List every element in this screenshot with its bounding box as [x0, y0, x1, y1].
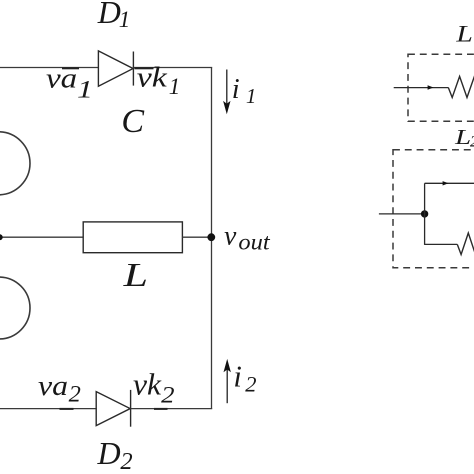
dashed box L2	[393, 150, 474, 268]
wire middle from left node to resistor L	[0, 236, 84, 238]
resistor R2 (box L2, clipped)	[457, 233, 474, 255]
node left junction (clipped)	[0, 234, 3, 240]
current arrow i2	[224, 359, 231, 403]
voltage source V2 (left, clipped)	[0, 277, 30, 339]
svg-text:C: C	[121, 103, 144, 140]
label va1	[46, 63, 93, 103]
svg-text:1: 1	[77, 76, 93, 103]
diode D2	[96, 390, 130, 427]
wire lead into box L2	[379, 213, 425, 215]
diode D1	[98, 51, 133, 86]
svg-text:L: L	[455, 22, 473, 47]
wire top branch box L2	[425, 182, 474, 184]
dashed box L1	[408, 54, 474, 121]
svg-text:L: L	[454, 125, 471, 149]
current mark on top branch	[443, 181, 449, 185]
svg-text:va: va	[38, 371, 68, 402]
svg-text:out: out	[238, 230, 270, 255]
svg-text:2: 2	[161, 383, 174, 408]
probe dash va2	[60, 408, 74, 410]
current mark on L1 wire	[428, 85, 434, 89]
wire D1 cathode to top-right corner	[133, 67, 212, 69]
svg-text:va: va	[46, 63, 77, 94]
node vout	[207, 233, 215, 241]
node junction in box L2	[421, 210, 428, 217]
svg-text:D: D	[97, 0, 121, 30]
label D2	[97, 435, 133, 474]
label i2	[233, 360, 256, 397]
wire bottom branch box L2	[425, 243, 458, 245]
svg-text:vk: vk	[133, 368, 161, 402]
svg-text:D: D	[97, 435, 121, 471]
label vk2	[133, 368, 175, 408]
svg-text:2: 2	[470, 133, 474, 150]
wire riser in box L2	[424, 183, 426, 245]
svg-text:i: i	[232, 74, 240, 105]
label vk1	[137, 62, 180, 99]
svg-text:L: L	[122, 257, 148, 294]
svg-text:2: 2	[120, 448, 132, 474]
svg-text:1: 1	[169, 74, 181, 99]
probe dash vk2	[154, 408, 168, 410]
probe dash va1	[62, 67, 79, 69]
label i1	[232, 74, 257, 108]
svg-text:i: i	[233, 360, 241, 394]
svg-text:1: 1	[119, 7, 131, 32]
svg-text:v: v	[224, 220, 237, 251]
resistor L (box)	[83, 222, 182, 253]
svg-text:2: 2	[69, 382, 81, 407]
label vout	[224, 220, 270, 255]
wire lead into box L1	[394, 87, 449, 89]
wire resistor L to node vout	[182, 236, 211, 238]
voltage source V1 (left, clipped)	[0, 132, 30, 195]
label D1	[97, 0, 131, 32]
probe dash vk1	[135, 67, 154, 69]
current arrow i1	[223, 70, 230, 115]
wire D2 cathode to bottom-right corner	[131, 408, 213, 410]
resistor R1 (box L1, clipped)	[448, 76, 474, 97]
label va2	[38, 371, 81, 407]
wire right bus	[211, 68, 213, 409]
wire bottom-left to diode D2 anode	[0, 408, 97, 410]
label L2	[454, 125, 474, 150]
svg-text:vk: vk	[137, 62, 168, 94]
wire top-left to diode D1 anode	[0, 67, 99, 69]
svg-text:2: 2	[245, 371, 256, 396]
svg-text:1: 1	[246, 84, 257, 108]
